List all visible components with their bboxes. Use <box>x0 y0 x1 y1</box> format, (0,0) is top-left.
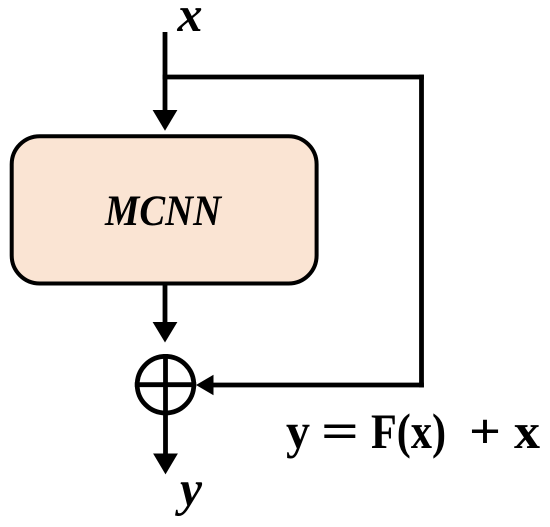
wire: skip connection vertical <box>419 75 424 388</box>
arrowhead into MCNN <box>153 110 178 131</box>
arrowhead into adder gap <box>153 322 178 343</box>
arrowhead to output y <box>153 454 178 475</box>
wire: skip connection horizontal into adder <box>212 383 424 388</box>
adder plus vertical / wire through adder down <box>163 354 168 458</box>
svg-text:MCNN: MCNN <box>104 188 223 235</box>
wire: branch junction to skip (horizontal top) <box>163 75 424 80</box>
svg-text:y: y <box>175 461 203 517</box>
svg-text:x: x <box>177 0 203 42</box>
block MCNN <box>12 136 317 283</box>
svg-text:y: y <box>286 403 310 459</box>
arrowhead into adder <box>196 375 214 395</box>
svg-text:=: = <box>321 403 359 459</box>
equation y = F(x) + x <box>286 403 540 459</box>
adder plus horizontal <box>135 382 196 387</box>
svg-text:+: + <box>469 403 501 459</box>
adder circle (sum junction) <box>137 356 194 413</box>
svg-text:x: x <box>514 403 540 459</box>
wire: input x down to MCNN <box>163 32 168 116</box>
wire: MCNN down to adder <box>163 285 168 328</box>
svg-text:F(x): F(x) <box>371 403 446 459</box>
